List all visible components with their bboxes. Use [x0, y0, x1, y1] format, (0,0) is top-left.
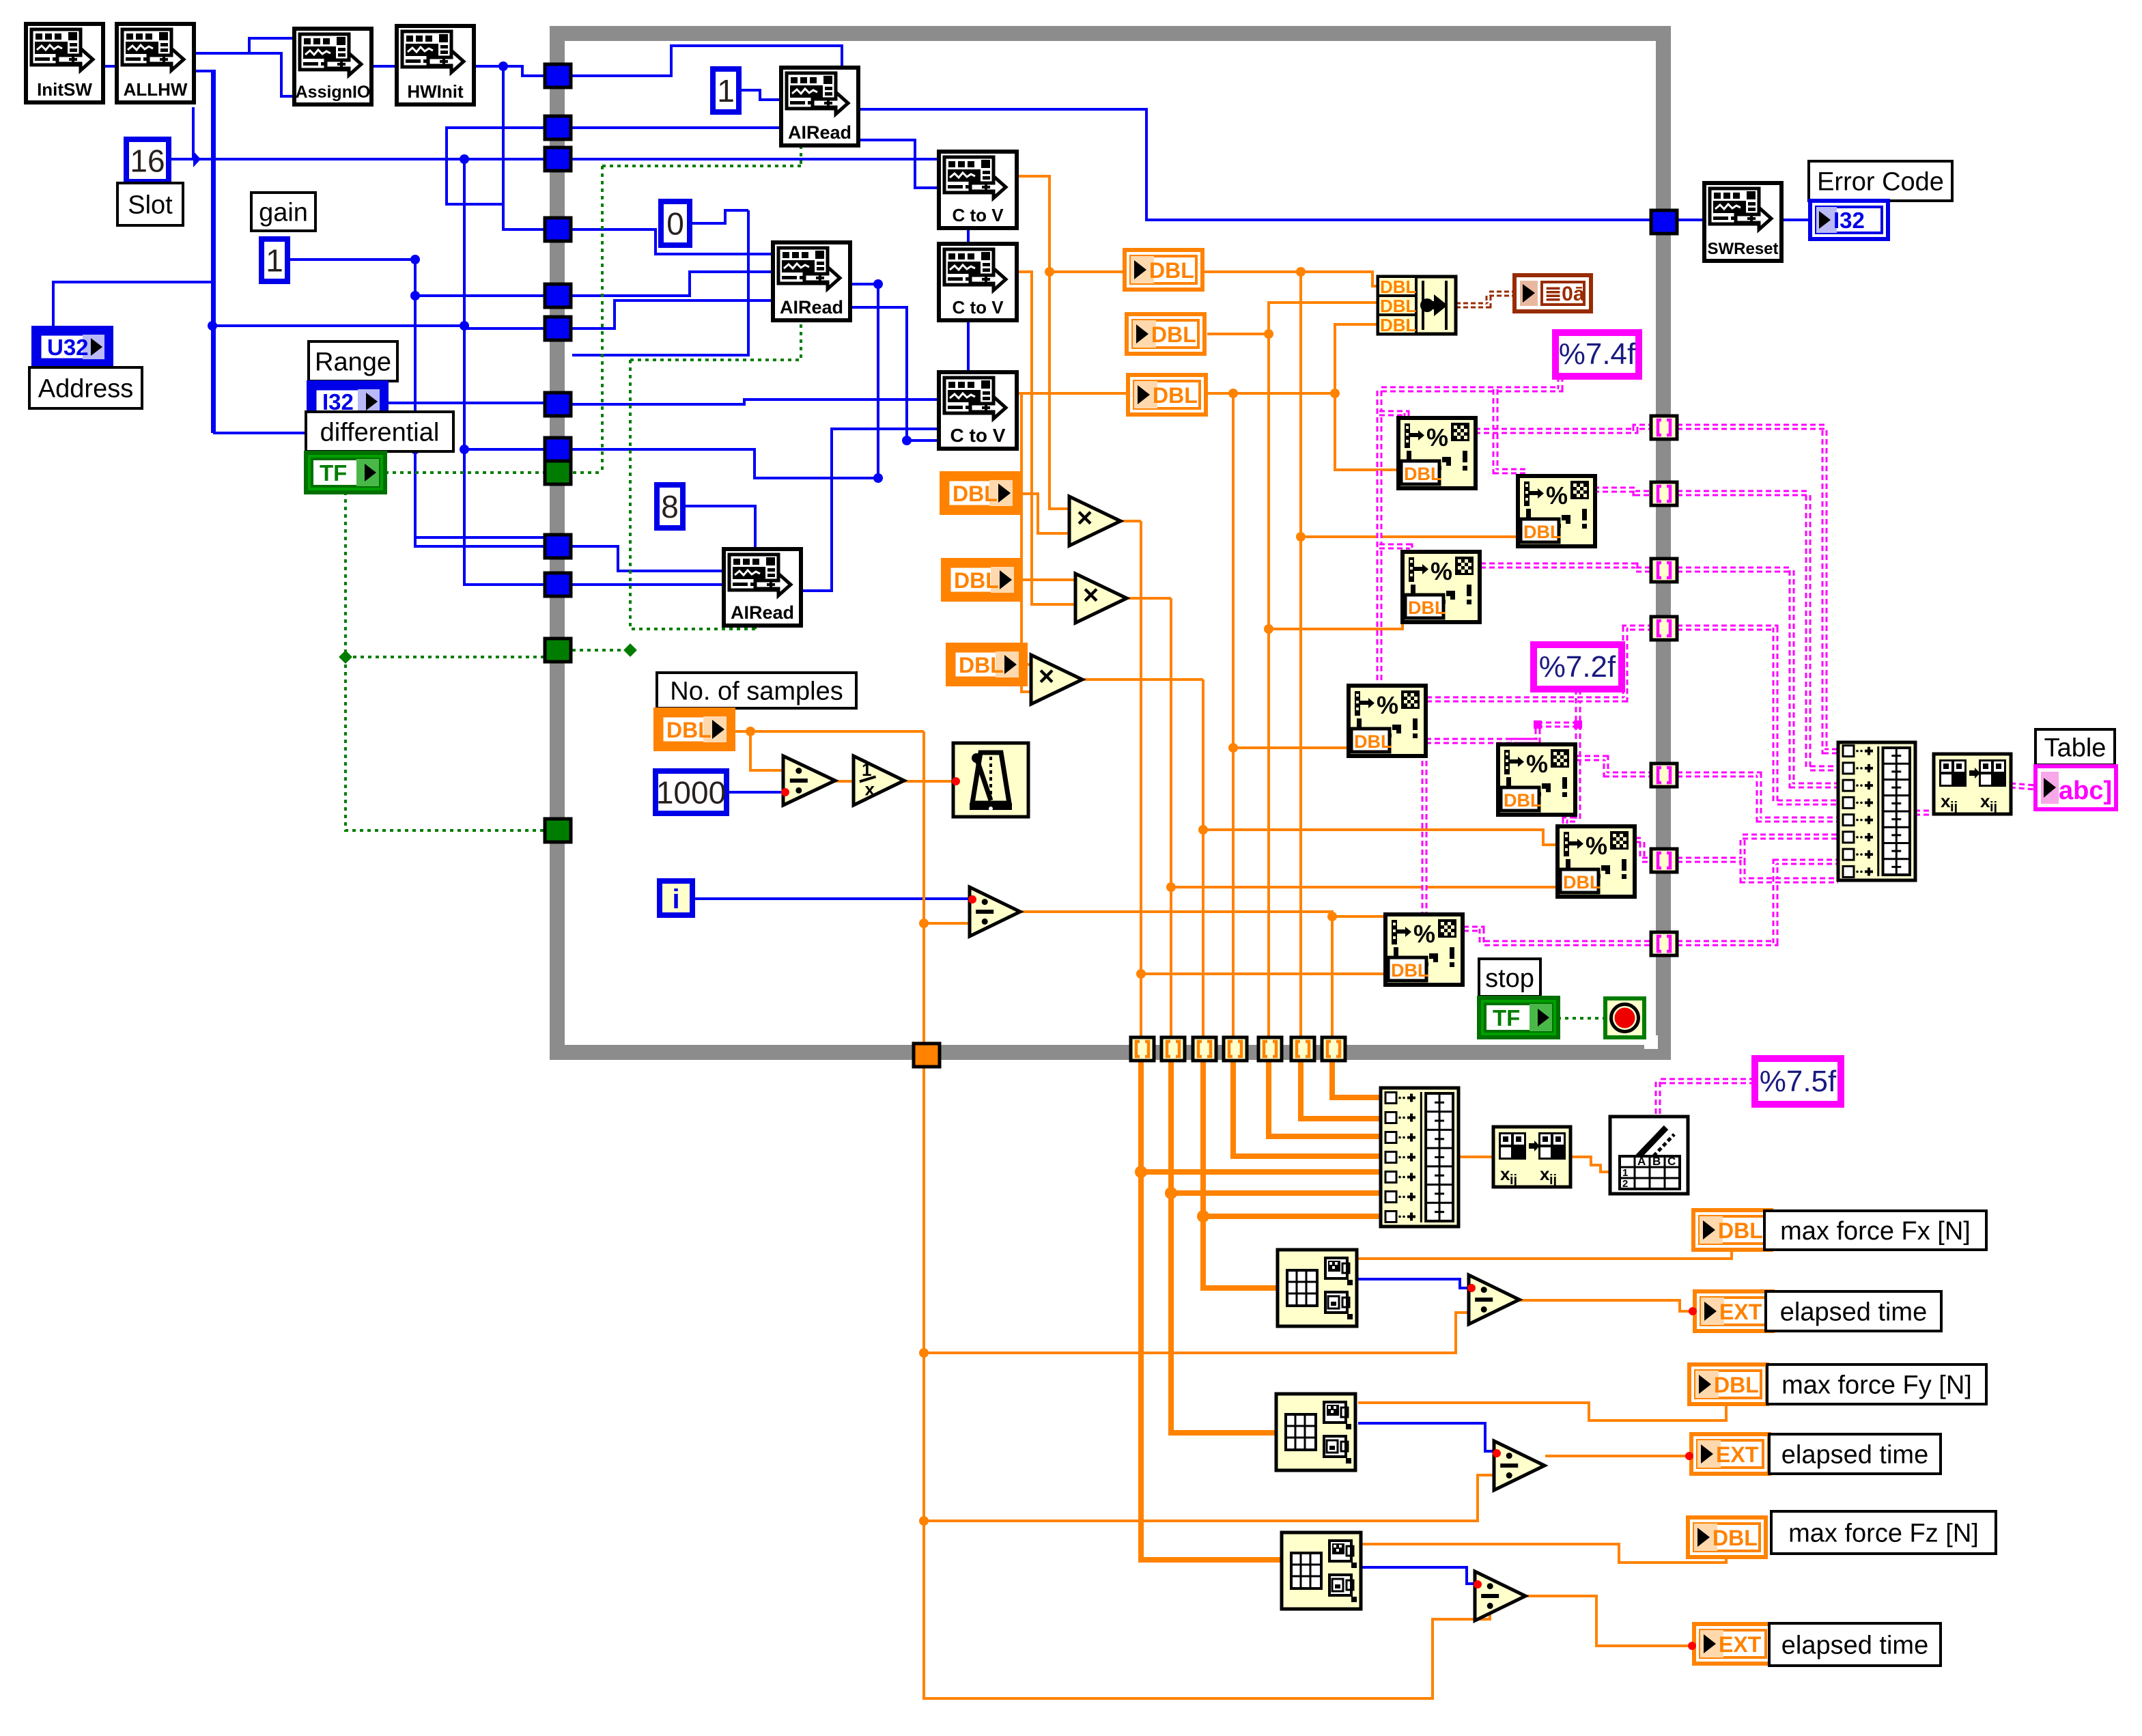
wire Address up and right: [53, 282, 212, 328]
indicator elapsed time 1 EXT: [1695, 1291, 1773, 1331]
wire branch to tunnel T10 y800: [415, 449, 557, 546]
trunk x1353 time down through loop: [922, 731, 925, 1054]
subVI SWReset: [1704, 183, 1781, 261]
wire time trunk below loop: [924, 1054, 1490, 1698]
wire branch CtoV2 input: [968, 285, 978, 288]
wire 1000 to divide: [726, 791, 783, 794]
indicator max force Fz DBL: [1688, 1517, 1766, 1557]
wire AIRead1 out to CtoV1: [858, 140, 978, 188]
subVI C to V 3: [939, 372, 1017, 449]
svg-text:EXT: EXT: [1719, 1632, 1762, 1657]
subVI AIRead 1: [781, 68, 858, 145]
svg-text:1000: 1000: [656, 775, 726, 811]
tunnel BT2: [1161, 1037, 1185, 1061]
wire branch to DBL1: [1049, 270, 1125, 273]
wire F1 out to tunnel RT2: [1475, 427, 1651, 431]
label Table: [2035, 729, 2115, 765]
svg-text:2: 2: [1622, 1178, 1628, 1190]
branch build2 row5: [1141, 1169, 1381, 1175]
wire %7.2f to F5: [1512, 689, 1578, 746]
label max force Fz: [1771, 1511, 1996, 1554]
wire vertical 608 gain trunk: [415, 255, 557, 537]
trunk BT6 down to build2 row2: [1301, 1061, 1381, 1119]
indicator Error Code I32: [1810, 201, 1888, 239]
svg-text:abc]: abc]: [2059, 776, 2112, 805]
indicator max force Fy DBL: [1689, 1364, 1767, 1404]
loop corner notch: [1644, 1035, 1658, 1049]
wire %7.2f branch to F7: [1393, 741, 1538, 916]
branch build2 row6: [1171, 1190, 1381, 1196]
wire F2 dbl input: [1301, 535, 1518, 538]
svg-text:x: x: [1540, 1164, 1550, 1184]
wire branch down to divide: [750, 731, 783, 770]
wire T3 slot into loop: [572, 159, 978, 169]
bundle node: [1378, 277, 1456, 335]
trunk x1762 down to tunnel BT3: [1202, 680, 1204, 1037]
svg-text:%7.5f: %7.5f: [1760, 1065, 1837, 1098]
index array 3: [1282, 1532, 1361, 1609]
wire T1 to AIRead1 top: [572, 46, 842, 76]
junction arrow on slot wire: [193, 151, 201, 167]
wire green dotted to AIRead2: [630, 320, 801, 360]
svg-text:Range: Range: [315, 348, 391, 376]
tunnel T5: [545, 284, 571, 307]
svg-text:ij: ij: [1950, 800, 1958, 815]
wire InitSW to ALLHW: [103, 65, 117, 68]
tunnel BT6: [1291, 1037, 1314, 1061]
wire DBL5 to mult M2: [1021, 578, 1075, 581]
wire M1 out to trunk x1671: [1121, 520, 1141, 522]
wire DBL3 out riser to bundle row3: [1207, 324, 1378, 393]
svg-text:x: x: [1980, 791, 1990, 811]
svg-text:gain: gain: [259, 198, 308, 227]
wire const 8 right: [683, 506, 755, 549]
while loop frame: [557, 33, 1663, 1052]
format node F3 (Format Into String): [1403, 552, 1480, 622]
tunnel BT5: [1258, 1037, 1282, 1061]
wire stop TF to loop condition: [1558, 1017, 1605, 1020]
index array 1: [1278, 1250, 1357, 1326]
svg-text:C to V: C to V: [952, 297, 1004, 318]
junction dots left mesh: [410, 255, 420, 264]
indicator DBL 2: [1127, 314, 1204, 354]
constant 16 Slot: [126, 139, 169, 182]
svg-text:x: x: [864, 779, 875, 800]
trunk BT1 down to index3 and build2 row5: [1141, 1061, 1282, 1560]
wire green dotted tunnel T12: [572, 649, 630, 652]
svg-text:elapsed time: elapsed time: [1780, 1298, 1927, 1326]
wire T2 to AIRead1: [572, 126, 781, 129]
svg-text:A: A: [1637, 1155, 1646, 1168]
wire divide to reciprocal: [834, 780, 854, 783]
svg-text:max force Fz [N]: max force Fz [N]: [1788, 1519, 1979, 1548]
svg-text:TF: TF: [320, 460, 347, 486]
wire RT2 to build1 row1: [1677, 427, 1838, 751]
coercion dot divide input: [781, 788, 789, 796]
wire F3 dbl input: [1269, 613, 1403, 629]
wire reciprocal to wait metronome: [903, 780, 953, 783]
svg-text:1: 1: [717, 73, 735, 109]
wire CtoV3 out to DBL3: [1017, 392, 1128, 395]
wire F5 out to tunnel RT6: [1576, 758, 1651, 774]
tunnel RT8: [1651, 932, 1677, 955]
wire T6 to AIRead2: [572, 300, 773, 328]
wire No of samples out: [733, 730, 924, 733]
svg-text:8: 8: [661, 489, 679, 524]
svg-text:%7.2f: %7.2f: [1539, 650, 1616, 684]
constant 0: [661, 201, 690, 245]
wire F3 out to tunnel RT4: [1480, 565, 1651, 570]
wire %7.4f to F4 format input: [1379, 376, 1560, 688]
wire RT7 to build1 row6: [1677, 837, 1838, 860]
wire RT6 to build1 row5: [1677, 774, 1838, 820]
wire M3 out to trunk x1762: [1084, 678, 1203, 681]
trunk BT5 down to build2 row3: [1269, 1061, 1381, 1136]
tunnel BT1: [1131, 1037, 1154, 1061]
subVI AIRead 3: [724, 549, 801, 626]
wire CtoV1 out down to DBL1 and multiply M1: [1017, 176, 1069, 509]
format node F5 (Format Into String): [1498, 744, 1575, 815]
wire ALLHW upper out to AssignIO top: [194, 38, 297, 53]
svg-text:TF: TF: [1493, 1005, 1520, 1031]
trunk BT4 down to build2 row4: [1233, 1061, 1381, 1156]
subVI C to V 1: [939, 152, 1017, 228]
wire format branch to F3: [1379, 546, 1410, 554]
wire CtoV2 out down to multiply M2: [1017, 272, 1075, 604]
svg-text:AIRead: AIRead: [788, 122, 851, 143]
svg-text:ij: ij: [1990, 800, 1997, 815]
wire DBL2 out riser to bundle row2: [1207, 303, 1378, 334]
label Slot: [117, 183, 183, 225]
wire branch to tunnel T4: [503, 204, 557, 229]
wire const 1 to AIRead1: [739, 90, 781, 100]
svg-text:elapsed time: elapsed time: [1781, 1440, 1928, 1469]
constant 1000: [656, 771, 727, 813]
svg-text:HWInit: HWInit: [407, 81, 464, 102]
wire T7 into loop to CtoV3: [572, 400, 978, 404]
svg-text:C: C: [1667, 1155, 1676, 1168]
svg-text:max force Fy [N]: max force Fy [N]: [1781, 1371, 1972, 1399]
wire divide V1 out to EXT1: [1519, 1300, 1695, 1311]
wire build1 to transpose1: [1915, 810, 1934, 816]
svg-text:Slot: Slot: [128, 191, 173, 219]
label Address: [29, 367, 142, 408]
svg-text:AssignIO: AssignIO: [296, 83, 371, 102]
wire green dotted vertical x923: [630, 360, 755, 629]
svg-text:Address: Address: [38, 374, 133, 403]
svg-text:×: ×: [1077, 503, 1093, 533]
coercion dot metronome input: [952, 777, 960, 785]
wire transpose2 out to write file: [1572, 1157, 1610, 1172]
wire AIRead2 out down: [849, 284, 878, 478]
label elapsed time 3: [1769, 1623, 1941, 1666]
wire zig from 0 to CtoV rail: [572, 210, 748, 355]
wire build2 out to transpose2: [1458, 1156, 1493, 1158]
tunnel BT7: [1322, 1037, 1345, 1061]
wire i to divide: [695, 897, 970, 900]
wire vertical x680 down to tunnel T11: [464, 449, 557, 585]
svg-text:differential: differential: [320, 418, 440, 447]
wire vertical 311: [211, 71, 214, 433]
format node F1 (Format Into String): [1398, 418, 1476, 488]
svg-text:DBL: DBL: [1149, 258, 1194, 283]
svg-text:%7.4f: %7.4f: [1559, 337, 1636, 371]
label Error Code: [1809, 161, 1952, 201]
tunnel T13 boolean: [545, 819, 571, 842]
svg-text:DBL: DBL: [1380, 296, 1417, 316]
trunk BT2 down to index2 and build2 row6: [1171, 1061, 1276, 1433]
trunk x1806 from DBL3 line down to tunnel BT4: [1232, 393, 1235, 1037]
wire AIRead2 out branch right: [849, 307, 978, 440]
svg-text:No. of samples: No. of samples: [670, 677, 843, 705]
tunnel RT1: [1651, 210, 1677, 234]
wire F7 out to tunnel RT8: [1463, 929, 1651, 943]
trunk x1715 down to tunnel BT2: [1170, 598, 1172, 1037]
label max force Fy: [1767, 1364, 1986, 1404]
wire AssignIO to HWInit: [371, 65, 397, 68]
tunnel T12 boolean: [545, 639, 571, 662]
wire F4 dbl input: [1233, 746, 1349, 749]
svg-text:U32: U32: [47, 335, 89, 360]
wire index3 max out to DBL Fz: [1362, 1544, 1726, 1563]
wire index2 max out to DBL Fy: [1358, 1403, 1726, 1420]
wire RT8 to build1 row7: [1677, 862, 1838, 943]
magenta junction squares: [1534, 720, 1542, 729]
wire gain branch to tunnel T5: [415, 294, 557, 297]
constant 1: [713, 69, 739, 112]
svg-text:elapsed time: elapsed time: [1781, 1631, 1928, 1660]
svg-text:×: ×: [1083, 580, 1099, 611]
wire riser x1955 down to F1 input: [1335, 393, 1398, 470]
tunnel T1: [545, 64, 571, 87]
control differential TF: [306, 453, 385, 492]
wire const 0 to mesh: [689, 210, 748, 223]
divide V3: [1475, 1571, 1525, 1621]
wire differential TF green dotted to tunnel T9: [385, 471, 557, 474]
svg-text:C to V: C to V: [952, 205, 1004, 225]
label stop: [1479, 959, 1540, 996]
control Address U32: [33, 328, 111, 366]
wire DBL4 to mult M1: [1018, 494, 1069, 533]
svg-text:≣0ā: ≣0ā: [1545, 283, 1585, 305]
reciprocal 1/x: [854, 756, 904, 805]
svg-text:DBL: DBL: [953, 481, 998, 506]
svg-text:B: B: [1652, 1155, 1661, 1168]
tunnel RT3: [1651, 482, 1677, 505]
wire T4 into loop down to AIRead2: [572, 229, 773, 254]
tunnel T2: [545, 116, 571, 139]
label max force Fx: [1764, 1211, 1986, 1250]
svg-text:DBL: DBL: [1153, 383, 1198, 408]
svg-text:DBL: DBL: [1713, 1526, 1758, 1550]
indicator cluster digits (brown): [1514, 275, 1591, 311]
wire green dotted branch to tunnel T12: [346, 656, 545, 658]
wire M2 out to trunk x1715: [1127, 597, 1171, 600]
wire ALLHW lower out to AssignIO: [194, 53, 297, 96]
wire Slot 16 to tunnel T3: [168, 158, 557, 160]
svg-text:1: 1: [1622, 1167, 1628, 1179]
tunnel T10: [545, 535, 571, 558]
tunnel T3: [545, 148, 571, 171]
wire format branch to F1: [1379, 413, 1407, 420]
indicator elapsed time 2 EXT: [1691, 1434, 1769, 1474]
coercion dot divide i input: [968, 895, 976, 904]
wire green dotted AIRead1 stub: [800, 145, 802, 166]
transpose 2D array 1: [1934, 754, 2011, 815]
wire RT4 to build1 row3: [1677, 570, 1838, 785]
svg-text:I32: I32: [1833, 208, 1865, 233]
wire T8 into loop: [572, 449, 878, 478]
label Range: [309, 341, 397, 381]
subVI C to V 2: [939, 244, 1017, 320]
wire branch CtoV3 down to multiply M3: [1021, 393, 1032, 692]
tunnel T9 boolean: [545, 461, 571, 484]
wire %7.5f to write file: [1658, 1081, 1755, 1117]
wire %7.2f branch to F6: [1565, 725, 1578, 828]
tunnel BT3: [1193, 1037, 1216, 1061]
subVI HWInit: [397, 26, 474, 104]
divide i by time: [970, 887, 1020, 936]
string constant %7.4f: [1555, 333, 1639, 376]
wire RT3 to build1 row2: [1677, 493, 1838, 768]
svg-text:i: i: [672, 884, 679, 914]
svg-text:1: 1: [862, 759, 871, 780]
wire F4 out to tunnel RT5: [1426, 628, 1651, 699]
trunk BT3 down to index1 and build2 row7: [1203, 1061, 1278, 1288]
green junction diamond: [339, 650, 352, 664]
trunk x1858 from DBL2 line down to tunnel BT5: [1267, 334, 1270, 1037]
wire branch down to CtoV3 lower input: [965, 400, 978, 445]
string constant %7.2f: [1534, 645, 1622, 689]
multiply M2: [1075, 574, 1127, 623]
wire vertical x283 from slot wire up: [192, 107, 195, 159]
wire F6 dbl input: [1171, 886, 1558, 888]
wire SWReset to Error Code I32: [1781, 219, 1810, 221]
wire T5 to AIRead2: [572, 272, 773, 296]
svg-text:AIRead: AIRead: [780, 297, 843, 318]
wire index2 idx out blue: [1358, 1423, 1494, 1451]
control No. of samples DBL: [656, 710, 733, 749]
svg-text:ALLHW: ALLHW: [124, 79, 188, 100]
svg-text:1: 1: [266, 243, 283, 279]
format node F7 (Format Into String): [1385, 914, 1463, 985]
divide V2: [1494, 1441, 1545, 1490]
tunnel T6: [545, 317, 571, 340]
wire F6 out to tunnel RT7: [1635, 840, 1651, 860]
coercion dots: [1467, 1284, 1476, 1292]
control Range I32: [309, 382, 386, 421]
wire index1 max out to DBL Fx: [1355, 1250, 1732, 1259]
wire branch to tunnel T8: [464, 159, 557, 449]
svg-text:DBL: DBL: [1380, 315, 1417, 335]
control DBL 5: [943, 560, 1021, 600]
svg-text:x: x: [1500, 1164, 1510, 1184]
wire transpose1 to Table indicator: [2010, 785, 2035, 787]
branch F7 line to trunk: [1141, 972, 1385, 975]
indicator Table abc: [2035, 766, 2116, 809]
trunk x1905 from DBL1 line down to tunnel BT6: [1299, 272, 1302, 1037]
svg-text:DBL: DBL: [954, 568, 999, 593]
wire index3 idx out blue: [1362, 1567, 1475, 1584]
svg-text:SWReset: SWReset: [1707, 240, 1778, 258]
constant 8: [657, 485, 683, 528]
wire RT7 branch to build1 row8: [1743, 860, 1838, 880]
svg-text:DBL: DBL: [959, 653, 1004, 677]
svg-text:DBL: DBL: [666, 718, 711, 742]
divide V1: [1469, 1275, 1519, 1324]
wire time branch 1 to divide V1: [924, 1313, 1469, 1353]
multiply M1: [1069, 496, 1121, 546]
wire F5 dbl input: [1203, 830, 1558, 845]
svg-text:C to V: C to V: [950, 425, 1006, 446]
svg-text:16: 16: [130, 143, 165, 179]
wire tunnel RT1 to SWReset: [1674, 219, 1704, 221]
wire divide V3 out to EXT3: [1526, 1596, 1694, 1646]
wire HWInit out to loop tunnel T2: [447, 66, 557, 204]
label differential: [306, 412, 453, 451]
wire divide i out to F7: [1019, 912, 1385, 916]
string constant %7.5f: [1755, 1059, 1841, 1104]
build array 1: [1838, 742, 1915, 880]
wire green dotted down to AIRead3 label: [754, 626, 757, 629]
svg-text:AIRead: AIRead: [731, 602, 794, 623]
svg-text:EXT: EXT: [1716, 1442, 1759, 1467]
trunk BT7 down to build2 row1: [1332, 1061, 1381, 1097]
svg-text:Table: Table: [2044, 733, 2106, 762]
label No. of samples: [657, 673, 856, 708]
tunnel RT2: [1651, 416, 1677, 439]
indicator elapsed time 3 EXT: [1694, 1624, 1772, 1664]
branch build2 row7: [1203, 1214, 1381, 1219]
label gain: [251, 193, 315, 231]
tunnel RT5: [1651, 617, 1677, 640]
svg-text:×: ×: [1039, 662, 1054, 692]
stop button (loop condition terminal): [1605, 998, 1644, 1037]
svg-text:0: 0: [666, 206, 684, 242]
wire divide i bottom input: [924, 922, 970, 925]
tunnel T4: [545, 218, 571, 241]
subVI ALLHW: [117, 24, 194, 102]
tunnel time scalar: [914, 1044, 940, 1067]
control stop TF: [1479, 998, 1558, 1037]
svg-text:ij: ij: [1510, 1173, 1517, 1188]
tunnel T11: [545, 573, 571, 596]
multiply M3: [1031, 655, 1082, 704]
svg-text:DBL: DBL: [1151, 322, 1196, 347]
wire DBL1 line to bundle row1: [1204, 272, 1378, 286]
wire T10 to AIRead3: [572, 546, 724, 571]
svg-text:InitSW: InitSW: [37, 79, 92, 100]
wire AIRead1 out down to SWReset tunnel: [858, 109, 1651, 220]
svg-text:stop: stop: [1485, 964, 1534, 993]
control DBL 6: [948, 645, 1026, 684]
wire gain 1 to vertical: [286, 258, 415, 261]
svg-text:DBL: DBL: [1714, 1373, 1759, 1397]
format node F6 (Format Into String): [1558, 826, 1635, 897]
control DBL 4: [942, 473, 1019, 513]
format node F2 (Format Into String): [1518, 476, 1595, 546]
wire bundle to cluster indicator brown: [1456, 294, 1514, 305]
subVI AIRead 2: [773, 242, 850, 320]
svg-text:Error Code: Error Code: [1817, 167, 1944, 196]
wire green dotted down to bottom left tunnel T13: [346, 492, 557, 830]
label elapsed time 2: [1769, 1434, 1941, 1474]
svg-text:ij: ij: [1549, 1173, 1557, 1188]
tunnel BT4: [1224, 1037, 1247, 1061]
subVI AssignIO: [294, 29, 371, 104]
wait ms multiple metronome: [953, 743, 1028, 817]
indicator DBL 1: [1125, 250, 1202, 290]
